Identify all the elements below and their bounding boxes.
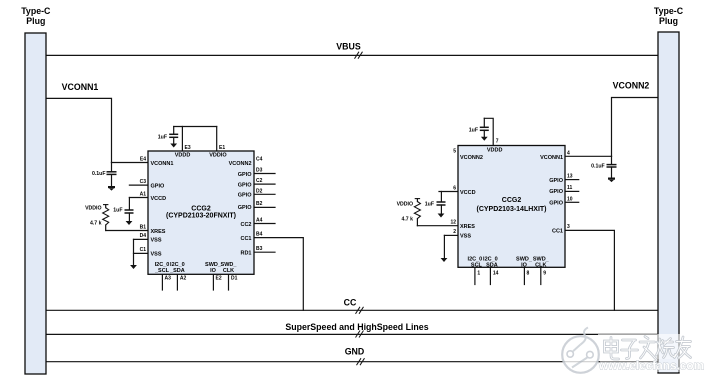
svg-text:CLK: CLK bbox=[223, 268, 234, 274]
svg-text:1uF: 1uF bbox=[113, 208, 122, 214]
svg-text:E1: E1 bbox=[219, 145, 225, 151]
svg-text:(CYPD2103-20FNXIT): (CYPD2103-20FNXIT) bbox=[166, 213, 236, 220]
svg-text:A1: A1 bbox=[140, 192, 147, 198]
svg-text:A4: A4 bbox=[256, 218, 263, 224]
svg-text:D4: D4 bbox=[140, 233, 147, 239]
svg-text:A2: A2 bbox=[180, 276, 187, 282]
svg-text:4.7 k: 4.7 k bbox=[401, 217, 413, 223]
svg-text:_SCL: _SCL bbox=[154, 268, 170, 274]
svg-text:VDDD: VDDD bbox=[175, 152, 191, 158]
svg-text:D2: D2 bbox=[256, 188, 263, 194]
svg-text:CC: CC bbox=[344, 298, 357, 308]
svg-text:VDDIO: VDDIO bbox=[85, 206, 101, 212]
svg-text:Type-C: Type-C bbox=[21, 6, 51, 16]
svg-text:GPIO: GPIO bbox=[549, 189, 563, 195]
svg-text:4.7 k: 4.7 k bbox=[90, 221, 102, 227]
svg-text:B1: B1 bbox=[140, 225, 147, 231]
svg-text:9: 9 bbox=[543, 271, 546, 277]
svg-text:C1: C1 bbox=[140, 247, 147, 253]
svg-text:VCONN2: VCONN2 bbox=[229, 161, 252, 167]
svg-text:VCONN1: VCONN1 bbox=[62, 82, 99, 92]
svg-text:GPIO: GPIO bbox=[549, 201, 563, 207]
svg-text:XRES: XRES bbox=[460, 224, 475, 230]
svg-text:www.elecfans.com: www.elecfans.com bbox=[598, 359, 704, 373]
svg-text:11: 11 bbox=[567, 185, 573, 191]
svg-text:GPIO: GPIO bbox=[151, 183, 165, 189]
svg-text:Type-C: Type-C bbox=[654, 6, 684, 16]
svg-text:(CYPD2103-14LHXIT): (CYPD2103-14LHXIT) bbox=[476, 206, 546, 213]
svg-text:VCCD: VCCD bbox=[460, 190, 476, 196]
svg-text:_SDA: _SDA bbox=[482, 262, 498, 268]
svg-text:D3: D3 bbox=[256, 168, 263, 174]
svg-text:VDDIO: VDDIO bbox=[209, 152, 227, 158]
svg-text:VSS: VSS bbox=[151, 251, 162, 257]
svg-text:E4: E4 bbox=[140, 157, 146, 163]
svg-text:VCONN1: VCONN1 bbox=[540, 155, 563, 161]
svg-text:13: 13 bbox=[567, 174, 573, 180]
svg-text:CC1: CC1 bbox=[240, 236, 251, 242]
svg-text:VCONN1: VCONN1 bbox=[151, 161, 174, 167]
svg-text:IO: IO bbox=[521, 262, 528, 268]
svg-text:0.1uF: 0.1uF bbox=[92, 171, 106, 177]
svg-text:A3: A3 bbox=[165, 276, 172, 282]
svg-text:1uF: 1uF bbox=[425, 202, 434, 208]
svg-text:C4: C4 bbox=[256, 157, 263, 163]
svg-text:CC2: CC2 bbox=[240, 222, 251, 228]
svg-text:VDDD: VDDD bbox=[487, 148, 503, 154]
svg-text:_SCL: _SCL bbox=[467, 262, 483, 268]
svg-text:CCG2: CCG2 bbox=[502, 197, 522, 204]
svg-text:5: 5 bbox=[453, 148, 456, 154]
svg-text:GPIO: GPIO bbox=[238, 205, 252, 211]
svg-text:B3: B3 bbox=[256, 246, 263, 252]
svg-text:0.1uF: 0.1uF bbox=[591, 164, 605, 170]
svg-text:GPIO: GPIO bbox=[549, 178, 563, 184]
svg-text:Plug: Plug bbox=[26, 16, 45, 26]
svg-text:CLK: CLK bbox=[535, 262, 546, 268]
svg-text:E3: E3 bbox=[185, 145, 191, 151]
svg-text:VSS: VSS bbox=[460, 233, 471, 239]
svg-text:B2: B2 bbox=[256, 201, 263, 207]
svg-text:B4: B4 bbox=[256, 232, 263, 238]
svg-text:3: 3 bbox=[567, 224, 570, 230]
svg-text:1uF: 1uF bbox=[469, 128, 478, 134]
svg-text:1uF: 1uF bbox=[158, 135, 167, 141]
svg-text:VSS: VSS bbox=[151, 237, 162, 243]
svg-text:C3: C3 bbox=[140, 179, 147, 185]
svg-text:CCG2: CCG2 bbox=[191, 205, 211, 212]
svg-text:1: 1 bbox=[477, 271, 480, 277]
svg-text:VBUS: VBUS bbox=[336, 42, 361, 52]
svg-text:_SDA: _SDA bbox=[169, 268, 185, 274]
svg-text:CC1: CC1 bbox=[552, 228, 563, 234]
svg-text:IO: IO bbox=[210, 268, 217, 274]
svg-text:GPIO: GPIO bbox=[238, 172, 252, 178]
svg-text:Plug: Plug bbox=[659, 16, 678, 26]
svg-text:12: 12 bbox=[450, 220, 456, 226]
svg-text:GND: GND bbox=[345, 347, 365, 357]
svg-text:GPIO: GPIO bbox=[238, 182, 252, 188]
svg-text:7: 7 bbox=[496, 139, 499, 145]
svg-text:2: 2 bbox=[453, 229, 456, 235]
svg-text:10: 10 bbox=[567, 196, 573, 202]
svg-text:VCONN2: VCONN2 bbox=[460, 155, 483, 161]
svg-text:VCCD: VCCD bbox=[151, 196, 167, 202]
svg-text:4: 4 bbox=[567, 151, 570, 157]
svg-text:RD1: RD1 bbox=[240, 251, 251, 257]
svg-text:C2: C2 bbox=[256, 178, 263, 184]
svg-text:SuperSpeed and HighSpeed Lines: SuperSpeed and HighSpeed Lines bbox=[285, 322, 428, 332]
svg-text:6: 6 bbox=[453, 186, 456, 192]
svg-text:VDDIO: VDDIO bbox=[397, 202, 413, 208]
svg-text:XRES: XRES bbox=[151, 229, 166, 235]
svg-text:GPIO: GPIO bbox=[238, 193, 252, 199]
svg-text:VCONN2: VCONN2 bbox=[613, 81, 650, 91]
svg-text:8: 8 bbox=[527, 271, 530, 277]
svg-text:D1: D1 bbox=[231, 276, 238, 282]
svg-text:E2: E2 bbox=[216, 276, 222, 282]
svg-text:14: 14 bbox=[493, 271, 499, 277]
